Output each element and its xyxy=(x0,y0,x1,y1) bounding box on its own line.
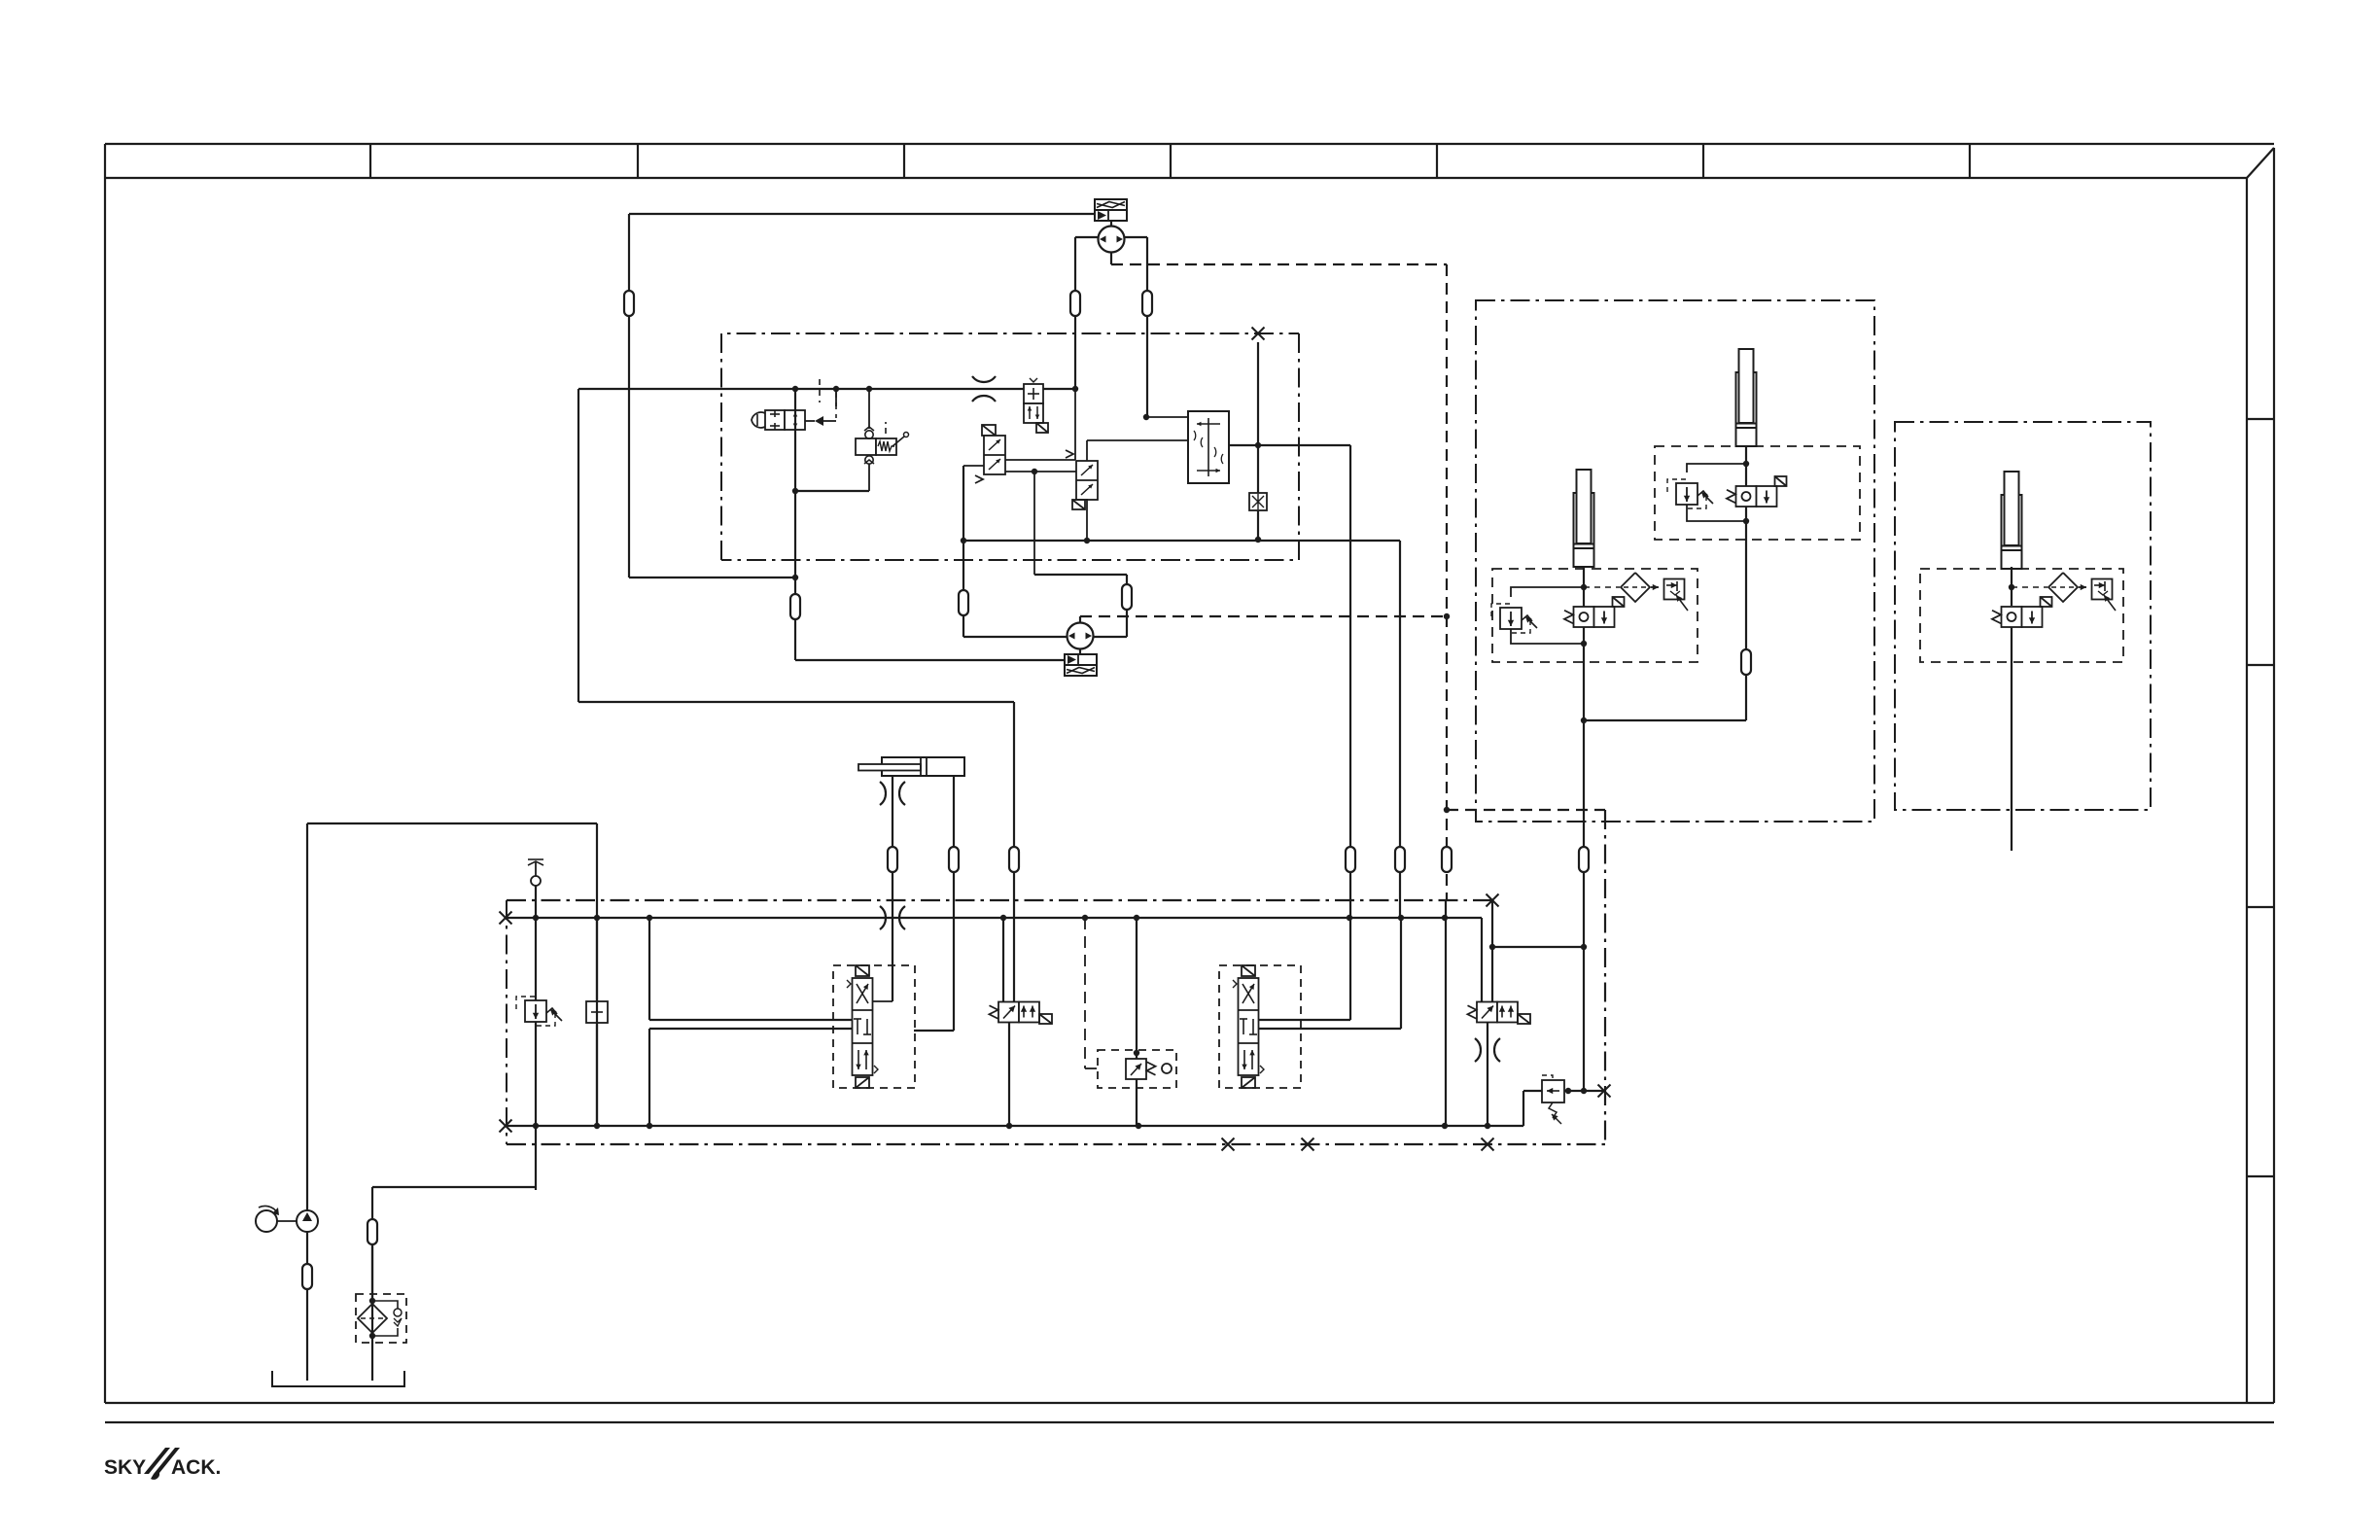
svg-text:SKY: SKY xyxy=(104,1456,146,1479)
svg-text:ACK.: ACK. xyxy=(171,1456,221,1479)
